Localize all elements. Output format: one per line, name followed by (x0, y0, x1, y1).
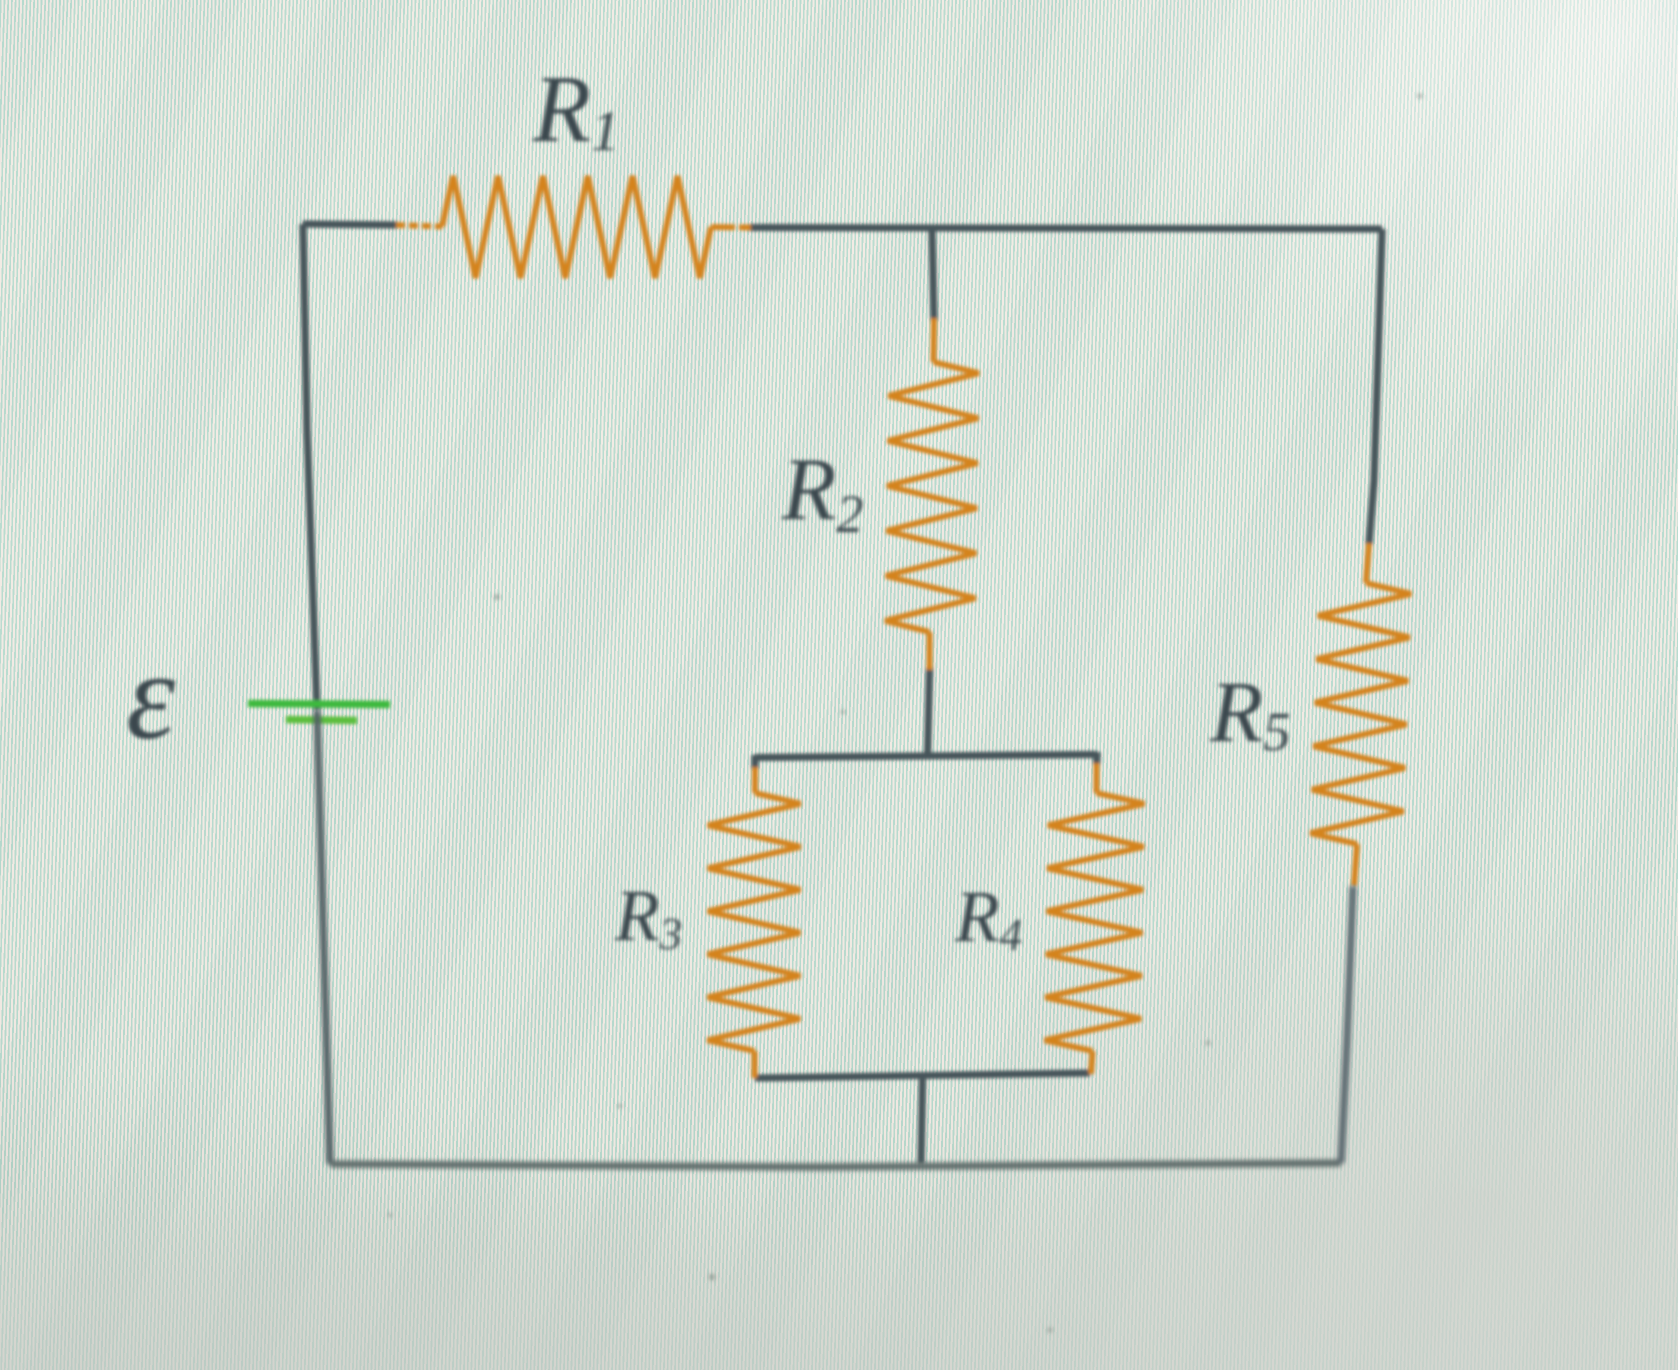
wire middle vertical between R2 and box (928, 667, 930, 757)
resistor R4 zigzag (1045, 793, 1145, 1051)
node box bottom junction (R3/R4 net) (921, 1075, 924, 1078)
resistor R2 zigzag (885, 362, 979, 632)
resistor R3 zigzag (708, 793, 801, 1051)
wire box left edge stub (751, 755, 758, 769)
wire middle vertical below box (921, 1075, 923, 1164)
wire box top edge (755, 755, 1097, 758)
svg-text:ε: ε (126, 628, 176, 766)
wire right upper (corner to R5) (1369, 229, 1382, 545)
resistor R1 zigzag (442, 176, 711, 278)
resistor R3 bottom lead (752, 1051, 758, 1078)
resistor R5 zigzag (1310, 583, 1411, 844)
wire left side lower (317, 710, 330, 1164)
resistor R4 bottom lead (1091, 1051, 1093, 1074)
resistor R1 right lead (711, 224, 751, 230)
resistor R4 top lead (1094, 763, 1100, 793)
battery EMF long plate (248, 704, 390, 705)
wire middle vertical upper (node to R2) (932, 228, 934, 321)
wire top-left to R1 left lead (303, 224, 397, 225)
resistor R2 top lead (931, 318, 937, 362)
svg-text:R1: R1 (532, 56, 620, 163)
resistor R5 top lead (1366, 543, 1369, 583)
resistor R5 bottom lead (1354, 844, 1357, 886)
resistor R2 bottom lead (927, 632, 933, 670)
node top junction (R1/R2/R5 net) (931, 227, 934, 230)
wire box bottom edge (755, 1073, 1090, 1078)
resistor R3 top lead (752, 767, 758, 793)
resistor R1 left lead (dashed) (396, 225, 442, 227)
node bottom junction (battery/R5 net) (920, 1163, 923, 1166)
battery EMF short plate (286, 720, 357, 721)
wire box right edge stub (1093, 752, 1101, 765)
wire top from R1 to top-right corner (749, 228, 1382, 230)
wire bottom (330, 1163, 1341, 1167)
svg-text:R5: R5 (1209, 663, 1291, 762)
svg-text:R4: R4 (954, 876, 1022, 960)
wire right lower (R5 to bottom-right corner) (1341, 886, 1353, 1163)
svg-text:R3: R3 (614, 875, 682, 959)
svg-text:R2: R2 (781, 441, 863, 544)
wire left side upper (battery branch) (303, 224, 317, 710)
node box top junction (R2/R3/R4 net) (926, 755, 929, 758)
